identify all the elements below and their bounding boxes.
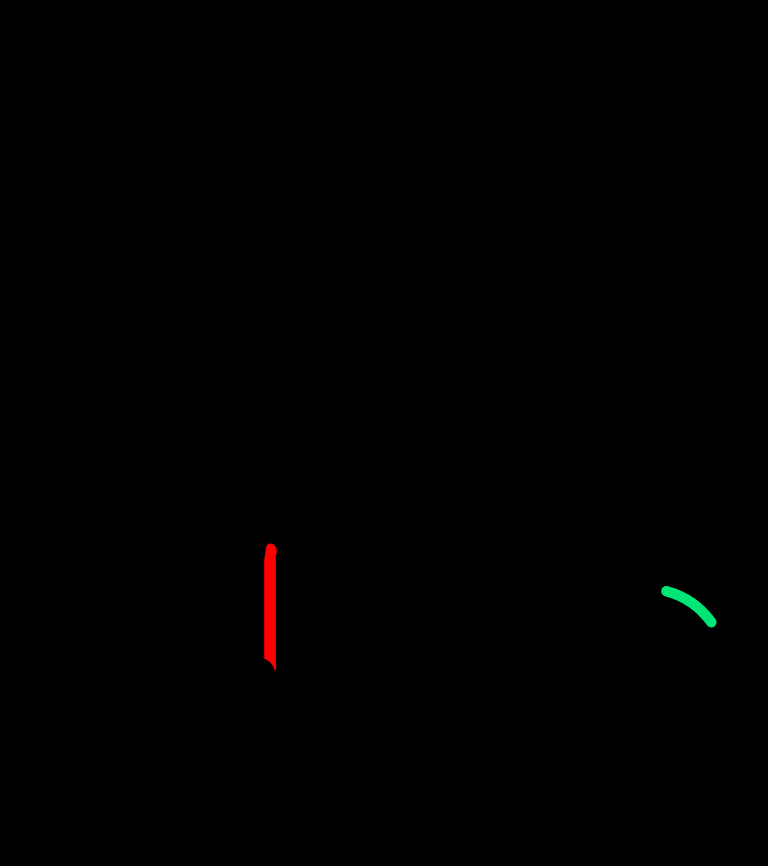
- wire (green highlighted arc): [666, 591, 711, 622]
- wire (red highlighted stroke): [264, 544, 277, 671]
